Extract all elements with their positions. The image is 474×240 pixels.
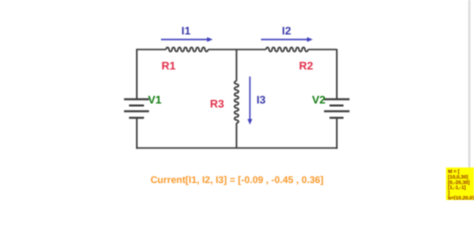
wire: top horizontal with R1 and R2: [136, 47, 337, 51]
wire middle top lead: [236, 50, 238, 82]
svg-text:V2: V2: [312, 95, 325, 107]
svg-text:R2: R2: [299, 61, 313, 73]
battery V1: [124, 99, 149, 118]
wire: right vertical bottom (V2 bottom lead): [336, 118, 338, 149]
svg-text:[1,-1,-1]: [1,-1,-1]: [448, 185, 466, 191]
wire: bottom horizontal: [136, 147, 338, 149]
resistor R2: [266, 47, 308, 51]
wire: left vertical bottom (V1 bottom lead): [136, 118, 138, 149]
wire top-middle segment: [208, 49, 266, 51]
current arrow I1: [161, 37, 213, 42]
wire middle bottom lead: [236, 123, 238, 148]
battery V2: [324, 99, 350, 118]
tooltip text: [448, 169, 474, 202]
svg-text:R1: R1: [162, 61, 176, 73]
svg-text:R3: R3: [210, 99, 224, 111]
svg-text:V1: V1: [148, 95, 161, 107]
wire: right vertical top (V2 top lead): [336, 49, 338, 99]
svg-text:Current[I1, I2, I3] = [-0.09 ,: Current[I1, I2, I3] = [-0.09 , -0.45 , 0…: [150, 175, 323, 186]
resistor R1: [166, 47, 208, 51]
tooltip yellow box: [446, 168, 474, 201]
current arrow I3: [248, 77, 253, 125]
svg-text:I1: I1: [181, 26, 190, 38]
wire top-left segment: [136, 49, 166, 51]
svg-text:I2: I2: [282, 26, 291, 38]
resistor R3: [234, 81, 238, 123]
wire: left vertical top (V1 top lead): [136, 50, 138, 100]
wire top-right segment: [308, 49, 337, 51]
current arrow I2: [261, 37, 313, 42]
svg-text:I3: I3: [257, 95, 266, 107]
svg-text:b=[10,20,0]: b=[10,20,0]: [448, 196, 474, 201]
wire: middle vertical with R3: [234, 50, 238, 149]
scrollbar divider line: [468, 0, 470, 168]
